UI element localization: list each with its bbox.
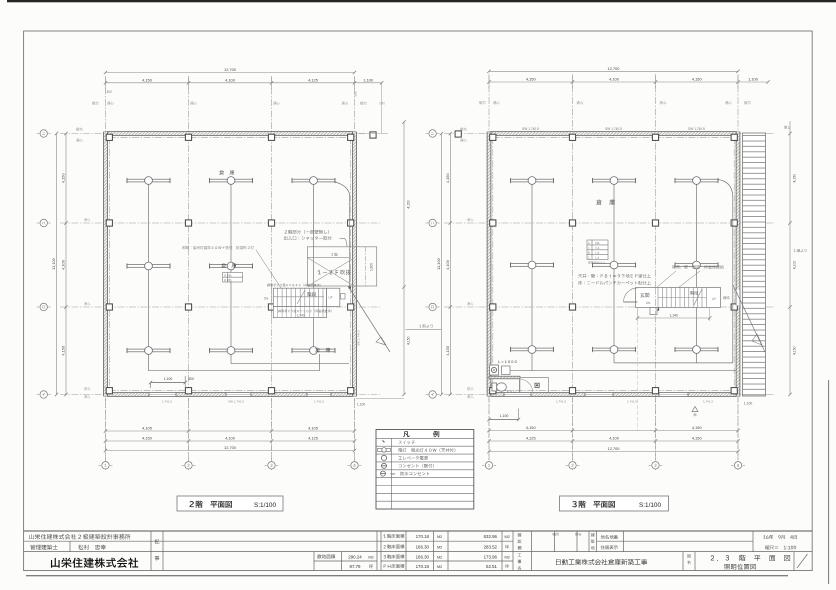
light fixture (fluorescent 40W): [511, 346, 554, 354]
svg-text:4,125: 4,125: [308, 77, 318, 82]
right plan: right-side dimension: [744, 121, 807, 406]
svg-text:S:1/100: S:1/100: [639, 502, 661, 509]
svg-text:11,100: 11,100: [51, 257, 56, 269]
light fixture (fluorescent 40W): [210, 347, 253, 355]
svg-text:632.96: 632.96: [484, 534, 498, 539]
grid line over stair (left plan): [271, 288, 273, 319]
left plan: title box: [177, 496, 283, 511]
right plan: grid sub-labels: [460, 101, 751, 142]
light fixture (fluorescent 40W): [675, 261, 718, 269]
svg-text:4,125: 4,125: [308, 436, 318, 441]
svg-text:M2: M2: [437, 545, 442, 549]
svg-text:1,100: 1,100: [744, 402, 753, 406]
svg-text:M2: M2: [505, 535, 510, 539]
svg-text:12,700: 12,700: [224, 445, 237, 450]
svg-text:4,150: 4,150: [61, 173, 66, 184]
left plan: top dimension lines: [104, 67, 384, 134]
left plan: walls: [104, 132, 357, 397]
right plan: exterior stair (hatched): [733, 133, 766, 396]
right plan: windows in bottom wall: [504, 392, 688, 396]
svg-text:166.30: 166.30: [416, 554, 430, 559]
light fixture (fluorescent 40W): [210, 262, 253, 270]
svg-text:1,100: 1,100: [748, 77, 759, 82]
grid line over stair (right plan): [655, 288, 657, 315]
light fixture (fluorescent 40W): [511, 177, 554, 185]
right plan: small dim below wall: [487, 409, 520, 422]
svg-text:1,741.5: 1,741.5: [627, 400, 637, 404]
svg-text:1,740: 1,740: [297, 313, 305, 317]
svg-text:52.51: 52.51: [486, 564, 498, 569]
page right edge: [828, 380, 830, 584]
left plan: interior small dims: [149, 376, 194, 388]
svg-text:4,150: 4,150: [526, 77, 537, 82]
light fixture (fluorescent 40W): [292, 347, 335, 355]
svg-text:4,150: 4,150: [692, 77, 703, 82]
light fixture (fluorescent 40W): [675, 346, 718, 354]
left plan: right-side dimension: [356, 120, 411, 406]
svg-text:300: 300: [106, 90, 112, 94]
svg-text:L=1000: L=1000: [498, 359, 518, 364]
svg-text:1,100: 1,100: [357, 403, 366, 407]
svg-text:4,100: 4,100: [793, 261, 797, 270]
svg-text:4,150: 4,150: [692, 436, 703, 441]
svg-text:4,150: 4,150: [526, 425, 537, 430]
svg-text:300: 300: [354, 91, 358, 96]
svg-text:4,150: 4,150: [142, 436, 153, 441]
left plan: windows in bottom wall: [149, 392, 331, 396]
left plan: void area 1-2F: [307, 247, 376, 286]
svg-text:SW 1,741.5: SW 1,741.5: [228, 400, 244, 404]
svg-text:1,741.5: 1,741.5: [314, 400, 324, 404]
right plan: entrance + staircase: [624, 288, 730, 431]
svg-text:4,100: 4,100: [225, 436, 236, 441]
svg-text:1,741.5: 1,741.5: [556, 400, 566, 404]
right plan: column grid center lines: [444, 74, 775, 470]
left plan: grid sub-labels: [76, 90, 385, 142]
left plan: right-side diagonal (1F roof line): [348, 286, 390, 352]
svg-text:12,700: 12,700: [224, 67, 237, 72]
svg-text:300: 300: [188, 377, 194, 381]
svg-text:4,105: 4,105: [142, 426, 152, 431]
svg-text:坪: 坪: [369, 563, 373, 569]
title block: [24, 531, 813, 571]
right plan: grid bubbles bottom: [482, 462, 496, 469]
light fixture (fluorescent 40W): [127, 262, 170, 270]
right plan: annotation texts: [578, 265, 724, 288]
svg-text:283.52: 283.52: [484, 544, 498, 549]
svg-text:170.18: 170.18: [416, 564, 430, 569]
left plan: left dimension lines: [51, 132, 68, 396]
page top edge bar: [7, 0, 836, 2]
svg-text:4,125: 4,125: [526, 436, 536, 441]
light fixture (fluorescent 40W): [511, 261, 554, 269]
left plan: columns: [106, 132, 376, 394]
svg-text:4,100: 4,100: [609, 77, 620, 82]
svg-text:4,105: 4,105: [308, 426, 318, 431]
svg-text:1,100: 1,100: [500, 414, 509, 418]
right plan: fixture schedule mini-table: [587, 240, 608, 264]
right plan: title box: [560, 496, 669, 511]
light fixture (fluorescent 40W): [593, 261, 636, 269]
svg-text:4,150: 4,150: [61, 345, 66, 356]
right plan: bottom dimension lines: [487, 398, 739, 460]
left plan: bottom dimension lines: [104, 398, 356, 460]
svg-text:4,150: 4,150: [692, 425, 703, 430]
svg-text:4,150: 4,150: [142, 77, 153, 82]
left plan: grid bubbles bottom: [99, 462, 113, 469]
right plan: grid bubbles left: [426, 130, 440, 137]
svg-text:SW 1,740.5: SW 1,740.5: [688, 127, 705, 131]
svg-text:4,100: 4,100: [225, 77, 236, 82]
svg-text:4,150: 4,150: [793, 346, 797, 355]
svg-text:12,700: 12,700: [608, 66, 621, 71]
svg-text:1,100: 1,100: [164, 377, 173, 381]
left plan: column grid center lines: [60, 76, 388, 470]
right plan: top dimension lines: [487, 66, 769, 88]
svg-text:S:1/100: S:1/100: [254, 502, 276, 509]
svg-text:SW 1,740.5: SW 1,740.5: [605, 127, 622, 131]
left plan: fixture schedule mini-table: [223, 273, 243, 283]
svg-text:170.18: 170.18: [416, 534, 430, 539]
svg-text:4,150: 4,150: [445, 173, 450, 184]
right plan: wiring: [510, 177, 736, 371]
light fixture (fluorescent 40W): [210, 177, 253, 185]
svg-text:1,800: 1,800: [370, 263, 374, 271]
svg-text:M2: M2: [505, 555, 510, 559]
light fixture (fluorescent 40W): [292, 177, 335, 185]
svg-text:87.79: 87.79: [350, 564, 362, 569]
page bottom edge: [26, 575, 788, 577]
svg-text:4,100: 4,100: [61, 259, 66, 270]
right plan: toilet: [489, 376, 548, 393]
svg-text:11,100: 11,100: [436, 257, 441, 269]
left plan: wiring: [149, 177, 352, 371]
light fixture (fluorescent 40W): [593, 346, 636, 354]
right plan: section marker: [692, 407, 698, 417]
light fixture (fluorescent 40W): [593, 177, 636, 185]
svg-text:4,150: 4,150: [407, 200, 411, 209]
svg-text:4,150: 4,150: [793, 174, 797, 183]
left plan: staircase: [264, 284, 345, 318]
svg-text:1,741.5: 1,741.5: [162, 400, 172, 404]
left plan: grid bubbles left: [37, 130, 51, 137]
left plan: annotation texts: [182, 230, 347, 288]
svg-text:12,700: 12,700: [608, 446, 621, 451]
svg-text:4,100: 4,100: [445, 259, 450, 270]
svg-text:WP: WP: [391, 472, 396, 476]
svg-text:1,140: 1,140: [670, 314, 678, 318]
right plan: walls: [487, 132, 740, 397]
light fixture (fluorescent 40W): [127, 347, 170, 355]
svg-text:SW 1,741.5: SW 1,741.5: [357, 330, 361, 346]
right plan: door opening to exterior stair: [736, 290, 740, 306]
legend table: [376, 430, 474, 510]
svg-text:173.96: 173.96: [484, 554, 498, 559]
svg-text:SW 1,740.5: SW 1,740.5: [522, 127, 539, 131]
svg-text:1,100: 1,100: [363, 77, 374, 82]
right plan: left dimension lines: [406, 132, 453, 396]
svg-text:4,150: 4,150: [445, 345, 450, 356]
right plan: room label 倉庫: [596, 199, 615, 205]
left plan: room labels 倉庫: [219, 170, 234, 175]
svg-text:M2: M2: [437, 565, 442, 569]
svg-text:1,741.5: 1,741.5: [703, 400, 713, 404]
light fixture (fluorescent 40W): [675, 177, 718, 185]
svg-text:166.30: 166.30: [416, 544, 430, 549]
svg-text:M2: M2: [437, 555, 442, 559]
right plan: columns: [455, 131, 737, 394]
svg-text:4,150: 4,150: [407, 336, 411, 345]
right plan: elevator power outlet: [490, 359, 518, 375]
svg-text:M2: M2: [368, 555, 373, 559]
light fixture (fluorescent 40W): [127, 177, 170, 185]
svg-text:290.24: 290.24: [348, 554, 362, 559]
svg-text:4,100: 4,100: [609, 436, 620, 441]
svg-text:M2: M2: [437, 535, 442, 539]
